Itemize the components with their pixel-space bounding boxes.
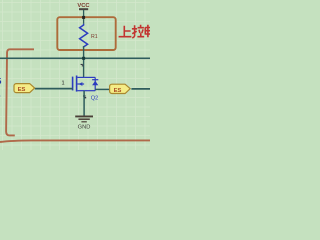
svg-text:GND: GND [78, 124, 91, 130]
svg-text:ES: ES [114, 88, 122, 94]
svg-text:5: 5 [0, 76, 2, 86]
svg-text:ES: ES [18, 87, 26, 93]
svg-text:R1: R1 [91, 34, 98, 40]
svg-text:1: 1 [62, 81, 65, 87]
svg-text:Q2: Q2 [91, 96, 98, 102]
